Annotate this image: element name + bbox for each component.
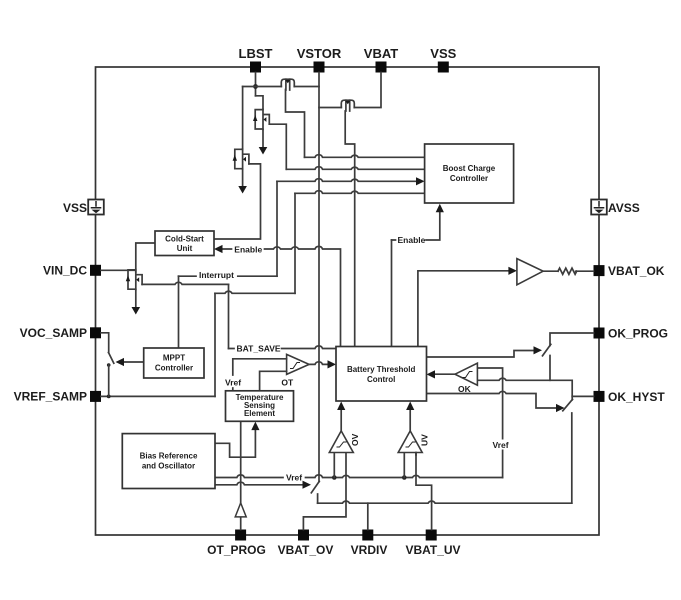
svg-text:MPPT: MPPT: [163, 354, 185, 363]
node arrow into boost box: [416, 177, 425, 185]
wire Q2 source to ground: [262, 129, 264, 147]
wire Vref main rail: [215, 475, 503, 478]
wire jog y293.3: [215, 291, 295, 293]
wire battery out1 to OK_PROG switch: [427, 351, 538, 358]
switch S2 OK_HYST arm: [563, 399, 573, 411]
pin OK_HYST: [594, 390, 666, 404]
wire VREF_SAMP line: [101, 395, 215, 397]
pin OT_PROG: [207, 530, 266, 558]
comparator UV: [398, 431, 422, 453]
wire interrupt to MPPT top: [178, 276, 180, 348]
pin VBAT: [364, 46, 398, 73]
pin VOC_SAMP: [20, 326, 101, 340]
svg-text:VBAT_UV: VBAT_UV: [405, 543, 460, 557]
wire OT plus input (Vref): [233, 359, 287, 375]
comparator OV: [329, 431, 353, 453]
wire OK comparator lower input rail: [477, 378, 572, 400]
svg-text:VIN_DC: VIN_DC: [43, 264, 87, 278]
wire Q5 source to ground: [242, 169, 244, 187]
svg-text:LBST: LBST: [239, 46, 273, 61]
switch S3 VSTOR sample arm: [311, 481, 319, 493]
wire boost enable: [392, 209, 440, 240]
svg-text:VBAT_OK: VBAT_OK: [608, 264, 665, 278]
wire OT output to battery control: [309, 362, 331, 365]
node OT_PROG open triangle: [235, 503, 246, 517]
svg-text:Bias Reference: Bias Reference: [140, 452, 198, 461]
block Bias Reference and Oscillator: [122, 434, 215, 489]
node arrow into buffer: [508, 267, 517, 275]
svg-text:Vref: Vref: [225, 378, 241, 388]
wire VSTOR long vertical: [318, 73, 320, 482]
wire battery out2 to OK_HYST switch: [427, 391, 561, 408]
svg-text:Cold-Start: Cold-Start: [165, 235, 204, 244]
block Temperature Sensing Element: [226, 391, 294, 422]
wire BAT_SAVE label line to battery control: [229, 346, 337, 349]
svg-text:Controller: Controller: [155, 364, 193, 373]
wire drop to VREF_SAMP line: [214, 293, 216, 396]
comparator OK: [455, 363, 477, 385]
wire NMOS Q2 gate route: [269, 124, 286, 169]
svg-text:VRDIV: VRDIV: [351, 543, 388, 557]
wire bias to temperature sensing jog: [215, 427, 255, 458]
svg-text:OK_HYST: OK_HYST: [608, 390, 665, 404]
node junction on VREF_SAMP line: [107, 395, 111, 399]
node arrow OK into battery control: [427, 370, 436, 378]
wire NMOS Q4 gate (BAT_SAVE) horizontal: [142, 282, 228, 284]
node arrow at MPPT switch: [116, 358, 125, 366]
wire LBST vertical: [255, 73, 257, 96]
wire OV output: [340, 406, 342, 431]
wire rectifier rail y86.5 (LBST to PMOS Q1 to VSTOR): [243, 86, 319, 88]
block Boost Charge Controller: [425, 144, 514, 203]
wire Vref drop to temp sensing top: [232, 388, 234, 391]
wire interrupt vertical: [276, 181, 278, 276]
svg-text:OK: OK: [458, 384, 472, 394]
block MPPT Controller: [144, 348, 204, 378]
svg-text:Unit: Unit: [177, 244, 193, 253]
wire OT minus input from temp sensing: [260, 371, 287, 391]
transistor Q1 PMOS LBST-VSTOR: [281, 79, 294, 90]
wire LBST to NMOS Q2 drain jog: [256, 96, 264, 110]
wire OT_PROG to temp sensing: [240, 421, 242, 503]
switch S1 OK_PROG arm: [543, 344, 551, 356]
wire OK output to battery control: [431, 373, 455, 375]
svg-text:VREF_SAMP: VREF_SAMP: [14, 390, 87, 404]
ground arrow Q4: [132, 307, 141, 315]
wire buffer to resistor: [543, 270, 558, 272]
op-amp U1 VBAT_OK buffer: [517, 259, 543, 285]
pin LBST: [239, 46, 273, 73]
wire resistor to VBAT_OK pin: [576, 270, 594, 272]
resistor R1: [558, 268, 577, 274]
node arrow into cold-start unit: [214, 245, 223, 253]
pin VRDIV: [351, 530, 388, 558]
svg-text:OT_PROG: OT_PROG: [207, 543, 266, 557]
svg-text:VBAT_OV: VBAT_OV: [278, 543, 334, 557]
svg-text:Enable: Enable: [398, 235, 426, 245]
node Vref tap OV: [332, 475, 337, 480]
wire OK_HYST pin line: [572, 395, 593, 397]
node arrow OV into battery control: [337, 402, 345, 411]
wire PMOS Q1 gate route: [286, 90, 305, 158]
wire OV left input: [333, 453, 335, 478]
svg-text:VSTOR: VSTOR: [297, 46, 342, 61]
pin VSS left (ground symbol): [63, 200, 104, 216]
wire bus line A to boost controller: [305, 155, 425, 158]
node arrow at sample switch: [303, 481, 312, 489]
comparator OT: [287, 354, 310, 374]
pin VREF_SAMP: [14, 390, 101, 404]
wire enable drop to battery control top: [391, 240, 393, 347]
wire cold-start enable: [219, 246, 341, 346]
wire VSTOR sample switch stub: [317, 494, 319, 503]
svg-text:Vref: Vref: [286, 473, 302, 483]
pin VBAT_OK: [594, 264, 665, 278]
wire battery control to VBAT_OK buffer: [418, 271, 513, 347]
node arrow into boost bottom: [436, 204, 444, 213]
svg-text:and Oscillator: and Oscillator: [142, 462, 195, 471]
wire switch lower contact to VREF_SAMP line: [108, 365, 110, 396]
chip outline: [96, 67, 600, 535]
svg-text:OT: OT: [281, 378, 294, 388]
wire bus line B to boost controller: [286, 167, 424, 170]
svg-text:Boost Charge: Boost Charge: [443, 164, 496, 173]
ground arrow Q2: [259, 147, 268, 155]
svg-text:UV: UV: [420, 434, 430, 446]
node arrow into temp sensing bottom: [251, 422, 259, 431]
svg-text:VOC_SAMP: VOC_SAMP: [20, 326, 87, 340]
net label Vref (OT input): [225, 378, 242, 388]
wire LBST branch down to NMOS Q5: [242, 87, 244, 150]
transistor Q5 NMOS cold-start: [233, 149, 249, 169]
wire UV left input: [403, 453, 405, 478]
pin VSS top: [430, 46, 456, 73]
svg-text:Vref: Vref: [493, 440, 509, 450]
transistor Q3 PMOS VSTOR-VBAT: [341, 100, 354, 111]
wire bottom divider rail y503.2: [318, 501, 572, 503]
pin VIN_DC: [43, 264, 101, 278]
wire NMOS Q5 gate route to Cold-Start: [214, 164, 261, 239]
wire VSTOR-VBAT rail y107.5 through PMOS Q3: [319, 73, 381, 108]
svg-text:BAT_SAVE: BAT_SAVE: [237, 343, 281, 353]
svg-text:VSS: VSS: [63, 201, 87, 215]
svg-text:AVSS: AVSS: [608, 201, 640, 215]
svg-text:VBAT: VBAT: [364, 46, 398, 61]
node Vref tap UV: [402, 475, 407, 480]
wire VBAT_OV riser and jog to OV input: [303, 453, 346, 530]
wire bus line C (interrupt) to boost controller: [277, 179, 417, 182]
wire interrupt label segments: [179, 275, 278, 277]
wire bus D drop: [294, 193, 296, 293]
pin VBAT_OV: [278, 530, 334, 558]
block Cold-Start Unit: [155, 231, 214, 256]
transistor Q4 NMOS VIN_DC: [126, 270, 142, 290]
node arrow at OK_HYST switch: [556, 404, 565, 412]
node arrow OT into battery control: [328, 360, 337, 368]
wire OT_PROG riser: [240, 517, 242, 530]
net label Vref (OK input riser): [493, 440, 512, 451]
wire VOC_SAMP to switch: [101, 333, 109, 353]
wire bus line D to boost controller: [295, 191, 425, 194]
node arrow at OK_PROG switch: [534, 346, 543, 354]
svg-text:Control: Control: [367, 375, 395, 384]
block Battery Threshold Control: [336, 347, 427, 402]
svg-text:Controller: Controller: [450, 174, 488, 183]
switch S4 MPPT sample arm: [109, 353, 114, 364]
svg-text:VSS: VSS: [430, 46, 456, 61]
wire VRDIV riser: [367, 503, 369, 529]
wire OK_PROG contact and pin line: [550, 333, 594, 380]
svg-text:Enable: Enable: [234, 245, 262, 255]
wire OK_HYST lower contact drop: [571, 413, 573, 503]
wire BAT_SAVE vertical: [228, 285, 230, 349]
wire UV right input stub: [415, 453, 417, 456]
pin AVSS (ground symbol): [591, 200, 640, 216]
svg-text:OK_PROG: OK_PROG: [608, 326, 668, 340]
pin VSTOR: [297, 46, 342, 73]
pin OK_PROG: [594, 326, 669, 340]
wire VBAT_UV riser and jog to UV input: [416, 453, 432, 530]
svg-text:Battery Threshold: Battery Threshold: [347, 365, 416, 374]
wire switch control from bias: [215, 482, 307, 485]
ground arrow Q5: [238, 186, 247, 194]
wire MPPT control arrow line: [120, 361, 144, 363]
pin VBAT_UV: [405, 530, 460, 558]
wire UV output: [409, 406, 411, 431]
wire Vref up to OK comparator: [477, 368, 502, 478]
svg-text:OV: OV: [350, 433, 360, 446]
node switch lower contact: [107, 363, 111, 367]
node arrow UV into battery control: [406, 402, 414, 411]
wire Q4 source to ground: [135, 290, 137, 308]
svg-text:Element: Element: [244, 409, 275, 418]
node LBST junction: [253, 84, 258, 89]
svg-text:Interrupt: Interrupt: [199, 270, 234, 280]
transistor Q2 NMOS low-side: [253, 109, 269, 129]
wire VIN_DC to NMOS Q4: [101, 243, 155, 272]
wire PMOS Q3 gate route: [345, 111, 355, 347]
